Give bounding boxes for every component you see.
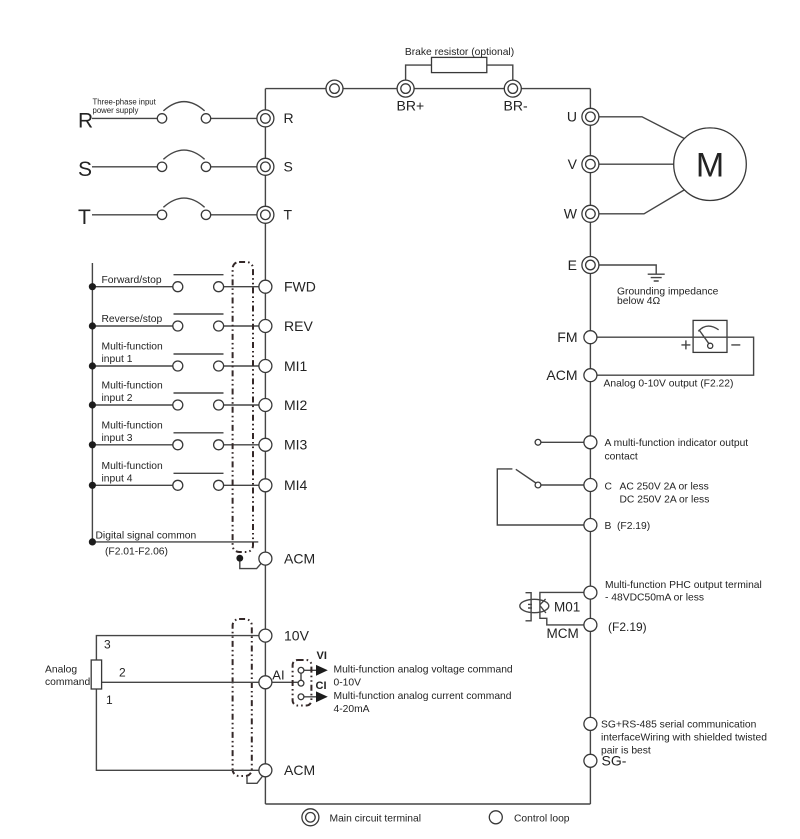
svg-text:Three-phase input: Three-phase input [93, 97, 157, 106]
svg-text:Multi-function: Multi-function [102, 461, 164, 472]
svg-text:ACM: ACM [284, 550, 315, 566]
svg-text:Brake resistor (optional): Brake resistor (optional) [405, 47, 514, 58]
svg-text:R: R [284, 110, 294, 126]
svg-text:DC 250V 2A or less: DC 250V 2A or less [620, 495, 710, 506]
svg-text:Analog 0-10V output (F2.22): Analog 0-10V output (F2.22) [604, 378, 734, 389]
svg-text:M01: M01 [554, 600, 580, 615]
svg-text:(F2.01-F2.06): (F2.01-F2.06) [105, 547, 168, 558]
svg-text:- 48VDC50mA or less: - 48VDC50mA or less [605, 593, 704, 604]
svg-text:FM: FM [557, 329, 577, 345]
svg-text:AI: AI [272, 668, 284, 683]
svg-text:Forward/stop: Forward/stop [102, 275, 162, 286]
svg-text:input 3: input 3 [102, 433, 133, 444]
svg-text:input 4: input 4 [102, 474, 133, 485]
svg-text:Control loop: Control loop [514, 813, 570, 824]
svg-text:S: S [78, 158, 92, 181]
svg-text:command: command [45, 677, 90, 688]
svg-text:M: M [696, 147, 724, 185]
svg-text:SG-: SG- [602, 753, 627, 769]
svg-text:Digital signal common: Digital signal common [96, 530, 197, 541]
svg-text:Multi-function: Multi-function [102, 342, 164, 353]
svg-text:Multi-function PHC output term: Multi-function PHC output terminal [605, 580, 762, 591]
svg-text:Multi-function analog voltage: Multi-function analog voltage command [334, 664, 513, 675]
svg-text:contact: contact [605, 451, 638, 462]
svg-text:(F2.19): (F2.19) [608, 620, 647, 634]
svg-text:Reverse/stop: Reverse/stop [102, 314, 163, 325]
svg-text:VI: VI [317, 650, 327, 662]
svg-text:BR-: BR- [504, 98, 528, 114]
svg-text:A multi-function indicator out: A multi-function indicator output [605, 438, 749, 449]
svg-text:S: S [284, 158, 293, 174]
svg-text:power supply: power supply [93, 106, 139, 115]
svg-text:1: 1 [106, 693, 113, 707]
svg-text:Multi-function analog current: Multi-function analog current command [334, 691, 512, 702]
svg-text:U: U [567, 109, 577, 125]
svg-text:B: B [605, 521, 612, 532]
svg-text:T: T [284, 206, 293, 222]
svg-text:AC 250V 2A or less: AC 250V 2A or less [620, 481, 709, 492]
svg-text:Multi-function: Multi-function [102, 381, 164, 392]
svg-text:ACM: ACM [284, 762, 315, 778]
svg-text:V: V [568, 156, 578, 172]
svg-text:2: 2 [119, 666, 126, 680]
svg-text:3: 3 [104, 638, 111, 652]
svg-text:Main circuit terminal: Main circuit terminal [330, 813, 422, 824]
svg-text:MI3: MI3 [284, 437, 308, 453]
svg-text:Multi-function: Multi-function [102, 420, 164, 431]
svg-text:REV: REV [284, 318, 313, 334]
svg-text:W: W [564, 206, 578, 222]
svg-text:below 4Ω: below 4Ω [617, 296, 660, 307]
svg-text:MI1: MI1 [284, 358, 308, 374]
svg-text:MI2: MI2 [284, 397, 308, 413]
svg-text:input 2: input 2 [102, 393, 133, 404]
svg-text:MCM: MCM [547, 626, 579, 641]
svg-text:input 1: input 1 [102, 354, 133, 365]
svg-text:MI4: MI4 [284, 477, 308, 493]
svg-text:T: T [78, 206, 91, 229]
svg-text:C: C [605, 481, 613, 492]
svg-text:ACM: ACM [546, 367, 577, 383]
svg-text:E: E [568, 257, 577, 273]
svg-text:10V: 10V [284, 627, 310, 643]
svg-text:BR+: BR+ [397, 98, 425, 114]
svg-text:SG+RS-485 serial communication: SG+RS-485 serial communication [601, 719, 757, 730]
svg-text:Analog: Analog [45, 665, 77, 676]
svg-text:CI: CI [316, 680, 327, 692]
svg-text:FWD: FWD [284, 279, 316, 295]
svg-text:4-20mA: 4-20mA [334, 704, 370, 715]
svg-text:interfaceWiring with shielded: interfaceWiring with shielded twisted [601, 732, 767, 743]
svg-text:(F2.19): (F2.19) [617, 521, 650, 532]
svg-text:R: R [78, 110, 93, 133]
svg-text:0-10V: 0-10V [334, 678, 362, 689]
